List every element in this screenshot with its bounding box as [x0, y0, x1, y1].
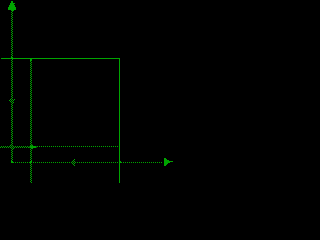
- junction blob at axes origin: [11, 161, 13, 163]
- sparse dotted level line y=146: [37, 146, 118, 147]
- x-axis dotted line y=162: [13, 162, 162, 163]
- solid step: vertical segment x=119: [119, 58, 120, 183]
- small solid left-pointing arrow at (29,147): [28, 145, 36, 150]
- dithered vertical line x=30: [30, 59, 32, 183]
- junction blob at y-axis / step line: [11, 57, 13, 59]
- dense dithered horizontal line y=146 left part: [0, 146, 29, 148]
- junction blob at x-axis / step vertical: [119, 161, 121, 163]
- junction blob at x-axis/x=30 line: [30, 161, 32, 163]
- y-axis arrowhead (solid, stepped): [8, 1, 16, 11]
- x-axis right arrowhead (solid, stepped): [164, 158, 173, 166]
- y-axis dithered vertical line: [11, 10, 13, 163]
- junction blob at x=30 line / step line: [30, 59, 32, 61]
- solid step: horizontal segment y=58: [1, 58, 120, 59]
- dithered small down-arrow on axis at y=100: [9, 99, 15, 104]
- small dithered left chevron on x-axis at x=72: [71, 159, 75, 166]
- dithered small down-arrow on axis at y=146: [9, 145, 14, 150]
